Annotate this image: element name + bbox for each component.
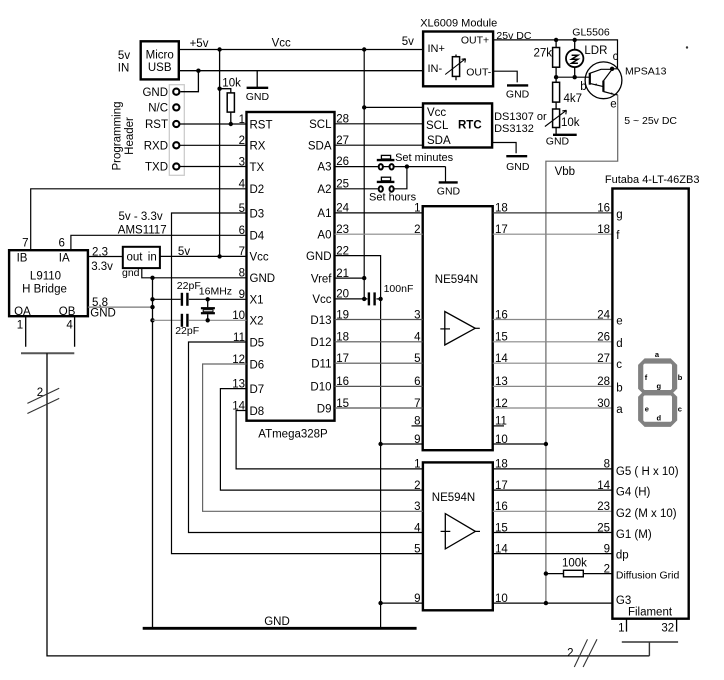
svg-text:4k7: 4k7 <box>564 93 583 105</box>
svg-text:G3: G3 <box>616 595 631 607</box>
svg-text:Diffusion Grid: Diffusion Grid <box>616 569 680 581</box>
svg-text:OA: OA <box>14 306 31 318</box>
svg-text:OUT-: OUT- <box>466 67 492 79</box>
wire RST row <box>180 122 247 126</box>
wire RTC Vcc <box>364 106 423 108</box>
wire Vbb (emitter to drivers) <box>544 95 618 605</box>
svg-text:MPSA13: MPSA13 <box>625 66 667 78</box>
wire 25v rail to transistor collector <box>493 38 617 71</box>
svg-text:24: 24 <box>597 309 610 321</box>
svg-text:100nF: 100nF <box>384 283 414 295</box>
capacitor C1 22pF <box>153 280 247 306</box>
svg-text:Vcc: Vcc <box>427 107 446 119</box>
wire NE594N2 pin 10 to G3 and Vbb <box>493 602 613 604</box>
svg-text:Filament: Filament <box>628 607 673 619</box>
svg-text:Vref: Vref <box>311 273 332 285</box>
svg-text:5v: 5v <box>118 50 130 62</box>
svg-text:Set hours: Set hours <box>369 192 417 204</box>
svg-text:IB: IB <box>17 253 28 265</box>
svg-text:LDR: LDR <box>584 45 607 57</box>
wire A0 to NE594N1 pin 2 <box>335 233 423 235</box>
svg-text:Vbb: Vbb <box>555 166 575 178</box>
svg-text:USB: USB <box>148 62 172 74</box>
svg-text:b: b <box>616 382 622 394</box>
resistor R2 27k <box>534 40 560 77</box>
potentiometer 10k <box>545 109 580 135</box>
svg-text:RST: RST <box>145 119 168 131</box>
svg-text:A0: A0 <box>317 230 331 242</box>
svg-text:X1: X1 <box>250 295 264 307</box>
svg-text:A2: A2 <box>317 184 331 196</box>
svg-text:G5 ( H x 10): G5 ( H x 10) <box>616 466 679 478</box>
svg-text:28: 28 <box>597 376 610 388</box>
svg-text:2: 2 <box>604 563 610 575</box>
photoresistor LDR GL5506 <box>566 27 610 78</box>
bus bar below L9110 <box>21 352 74 354</box>
svg-text:10k: 10k <box>222 78 241 90</box>
svg-text:NE594N: NE594N <box>435 274 478 286</box>
svg-text:Futaba 4-LT-46ZB3: Futaba 4-LT-46ZB3 <box>605 174 700 186</box>
svg-text:c: c <box>616 359 622 371</box>
resistor R4 100k (diffusion grid) <box>546 558 613 577</box>
svg-text:e: e <box>610 98 616 110</box>
transistor Q1 MPSA13 <box>580 51 666 110</box>
svg-text:D7: D7 <box>250 384 265 396</box>
wire AMS1117 in to ATmega Vcc pin 7 <box>160 246 247 258</box>
svg-text:100k: 100k <box>562 558 587 570</box>
svg-text:dp: dp <box>616 550 629 562</box>
wire TXD row <box>180 166 247 168</box>
svg-text:out: out <box>127 251 144 263</box>
wire D4 to L9110 pin 6 <box>71 235 247 250</box>
svg-text:c: c <box>678 405 682 414</box>
svg-text:RST: RST <box>250 119 273 131</box>
IC U2 RTC DS1307 <box>423 103 547 147</box>
svg-text:IN-: IN- <box>428 63 443 75</box>
header pin TXD <box>145 162 179 174</box>
svg-text:b: b <box>580 81 586 93</box>
svg-text:GL5506: GL5506 <box>572 27 610 39</box>
regulator U5 AMS1117 <box>118 211 167 279</box>
svg-text:18: 18 <box>597 224 610 236</box>
svg-text:2: 2 <box>567 648 573 660</box>
svg-text:D9: D9 <box>317 403 332 415</box>
IC U4 NE594N (bottom driver) <box>414 459 508 611</box>
svg-text:+5v: +5v <box>190 38 209 50</box>
resistor R3 4k7 <box>553 77 582 109</box>
connector J1 Micro USB <box>118 41 179 79</box>
wire NE594N1 pin 9 to GND <box>381 443 423 445</box>
wire Vref pin 21 <box>335 277 365 279</box>
svg-text:X2: X2 <box>250 316 264 328</box>
svg-text:RTC: RTC <box>458 120 482 132</box>
svg-text:GND: GND <box>546 136 570 148</box>
display Futaba 4-LT-46ZB3 <box>597 174 699 619</box>
crystal Y1 16MHz <box>199 286 232 323</box>
svg-text:D10: D10 <box>310 382 331 394</box>
capacitor C3 100nF <box>335 283 414 305</box>
svg-text:G1 (M): G1 (M) <box>616 529 652 541</box>
svg-text:27: 27 <box>597 353 610 365</box>
module XL6009 boost converter <box>420 17 497 86</box>
svg-text:22pF: 22pF <box>175 325 199 337</box>
svg-text:25: 25 <box>597 522 610 534</box>
svg-text:XL6009 Module: XL6009 Module <box>420 17 497 29</box>
svg-text:OB: OB <box>59 306 76 318</box>
capacitor C2 22pF <box>153 314 247 337</box>
wire L9110 to AMS1117 (2,3 / 3.3v) <box>88 246 123 273</box>
wire D5 to NE594N2 pin 4 <box>189 342 423 533</box>
svg-text:D13: D13 <box>310 315 331 327</box>
filament pin stubs <box>618 619 677 635</box>
wire NE594N1 pin 10 to Vbb <box>493 443 546 445</box>
svg-text:4: 4 <box>66 319 73 331</box>
svg-text:3: 3 <box>239 156 245 168</box>
wire GND rail <box>179 69 423 73</box>
svg-text:D5: D5 <box>250 337 265 349</box>
svg-text:RXD: RXD <box>144 140 168 152</box>
wire AMS1117 gnd to pin 8 row <box>142 268 247 280</box>
svg-text:G2 (M x 10): G2 (M x 10) <box>616 508 677 520</box>
svg-text:Micro: Micro <box>146 50 174 62</box>
svg-text:GND: GND <box>506 89 530 101</box>
svg-text:e: e <box>616 316 622 328</box>
svg-text:1: 1 <box>17 319 23 331</box>
IC U3 NE594N (top driver) <box>412 203 509 451</box>
seven segment digit graphic <box>638 350 683 427</box>
wire D7 to NE594N2 pin 2 <box>220 389 423 491</box>
wire D6 to NE594N2 pin 3 <box>203 364 423 511</box>
svg-text:Vcc: Vcc <box>250 252 269 264</box>
svg-text:6: 6 <box>58 237 64 249</box>
wire A1 to NE594N1 pin 1 <box>335 212 423 214</box>
svg-text:1: 1 <box>239 114 245 126</box>
header pin RST <box>145 119 179 131</box>
wires NE594N1 outputs to display (g,f,e,d,c,b,a) <box>493 212 613 214</box>
resistor 10k pullup <box>220 78 241 125</box>
IC U1 ATmega328P <box>232 112 349 441</box>
ground symbol buttons <box>437 167 461 198</box>
svg-text:D2: D2 <box>250 184 265 196</box>
svg-text:g: g <box>616 209 622 221</box>
pushbutton SW1 Set minutes <box>377 152 454 169</box>
svg-text:D11: D11 <box>311 359 331 371</box>
svg-text:Header: Header <box>124 117 136 155</box>
header pin N/C <box>148 103 179 115</box>
IC U6 L9110 H Bridge <box>9 237 88 331</box>
wire GND vertical (x=380.6) <box>335 256 383 629</box>
svg-text:Programming: Programming <box>112 101 124 170</box>
svg-text:b: b <box>678 373 683 382</box>
ground symbol RTC <box>492 143 530 173</box>
wire GND vertical (left, x=152.5) <box>150 278 154 629</box>
svg-text:IA: IA <box>59 253 70 265</box>
wire base row (27k/LDR junction to transistor) <box>554 75 590 79</box>
svg-text:10k: 10k <box>561 117 580 129</box>
svg-text:22pF: 22pF <box>177 280 201 292</box>
svg-text:SCL: SCL <box>309 119 332 131</box>
svg-text:GND: GND <box>250 273 276 285</box>
wire RXD row <box>180 144 247 146</box>
svg-text:TX: TX <box>250 162 265 174</box>
svg-text:2: 2 <box>239 135 245 147</box>
wire A3 pin 26 to button <box>335 166 378 168</box>
svg-text:D6: D6 <box>250 359 265 371</box>
wires D13..D9 to NE594N1 pins 3-7 <box>335 319 423 321</box>
wire D2 to L9110 pin 7 <box>31 189 247 250</box>
svg-text:SCL: SCL <box>426 120 449 132</box>
bus marker 2 slashes (left) <box>27 387 59 414</box>
svg-text:SDA: SDA <box>308 141 332 153</box>
wire SDA pin 27 to RTC <box>335 144 424 146</box>
svg-text:ATmega328P: ATmega328P <box>258 429 328 441</box>
pushbutton SW2 Set hours <box>369 177 417 203</box>
svg-text:GND: GND <box>306 251 332 263</box>
svg-text:27k: 27k <box>534 47 553 59</box>
wire NE594N2 pin 9 to GND <box>381 602 423 604</box>
svg-text:L9110: L9110 <box>30 270 61 282</box>
svg-text:16: 16 <box>597 203 610 215</box>
wire +5v rail <box>179 47 423 51</box>
svg-text:3.3v: 3.3v <box>91 261 113 273</box>
svg-text:D8: D8 <box>250 406 265 418</box>
svg-text:D3: D3 <box>250 208 265 220</box>
svg-text:A3: A3 <box>317 162 331 174</box>
svg-text:23: 23 <box>597 501 610 513</box>
wire D8 to NE594N2 pin 1 <box>236 411 423 469</box>
L9110 output pins OA OB stubs <box>26 316 75 347</box>
svg-text:gnd: gnd <box>122 267 140 279</box>
svg-text:26: 26 <box>597 332 610 344</box>
svg-text:8: 8 <box>604 459 610 471</box>
svg-text:N/C: N/C <box>148 103 168 115</box>
svg-text:c: c <box>613 51 619 63</box>
svg-text:g: g <box>657 381 662 390</box>
svg-text:SDA: SDA <box>427 135 451 147</box>
svg-text:GND: GND <box>437 186 461 198</box>
svg-text:7: 7 <box>22 237 28 249</box>
wire bus drop (2 wires) to bottom <box>47 353 649 656</box>
wire USB GND to header pin <box>181 71 199 92</box>
svg-text:2: 2 <box>37 387 43 399</box>
svg-text:32: 32 <box>661 623 674 635</box>
svg-text:IN+: IN+ <box>428 43 445 55</box>
wire D3 to NE594N2 pin 5 <box>172 213 423 554</box>
svg-text:OUT+: OUT+ <box>461 34 489 46</box>
svg-text:5 ~ 25v DC: 5 ~ 25v DC <box>624 115 677 127</box>
svg-text:5v - 3.3v: 5v - 3.3v <box>119 211 163 223</box>
svg-text:9: 9 <box>604 543 610 555</box>
svg-text:H Bridge: H Bridge <box>22 284 67 296</box>
svg-text:30: 30 <box>597 398 610 410</box>
programming header outline <box>169 85 184 176</box>
svg-text:1: 1 <box>618 623 624 635</box>
svg-text:GND: GND <box>246 91 270 103</box>
wires NE594N2 outputs to display grids <box>493 468 613 470</box>
header pin GND <box>142 87 179 99</box>
svg-text:14: 14 <box>597 480 610 492</box>
wire button minutes to GND <box>383 164 445 168</box>
ground symbol pot <box>546 135 577 148</box>
header pin RXD <box>144 140 180 152</box>
svg-text:16MHz: 16MHz <box>199 286 232 298</box>
svg-text:D4: D4 <box>250 231 265 243</box>
svg-text:GND: GND <box>506 161 530 173</box>
svg-text:Set minutes: Set minutes <box>395 152 454 164</box>
svg-text:DS3132: DS3132 <box>494 123 534 135</box>
svg-text:DS1307 or: DS1307 or <box>494 111 547 123</box>
svg-text:a: a <box>616 404 623 416</box>
svg-text:D12: D12 <box>310 337 331 349</box>
svg-text:TXD: TXD <box>145 162 168 174</box>
svg-text:NE594N: NE594N <box>432 492 475 504</box>
stray dot artifact <box>686 46 688 48</box>
wire A2 pin 25 to button <box>335 188 378 190</box>
wire 5v net vertical (x=364.2) <box>362 50 366 302</box>
ground symbol top (near 10k) <box>246 71 270 104</box>
ground symbol XL6009 <box>493 71 530 100</box>
filament supply bar <box>622 642 678 656</box>
bus marker 2 slashes (bottom) <box>567 639 597 667</box>
wire SCL pin 28 to RTC <box>335 123 424 125</box>
svg-text:GND: GND <box>142 87 168 99</box>
svg-text:Vcc: Vcc <box>312 294 331 306</box>
svg-text:5v: 5v <box>178 246 190 258</box>
svg-text:d: d <box>616 338 622 350</box>
svg-text:GND: GND <box>264 616 290 628</box>
svg-text:e: e <box>645 405 649 414</box>
GND bus bar <box>143 616 417 629</box>
wire 5v vertical drop <box>217 50 221 259</box>
svg-text:IN: IN <box>118 62 130 74</box>
svg-text:RX: RX <box>250 141 266 153</box>
svg-text:G4 (H): G4 (H) <box>616 487 651 499</box>
variable inductor symbol inside XL6009 <box>445 55 465 81</box>
svg-text:2,3: 2,3 <box>92 246 108 258</box>
wire L9110 5,8 GND <box>88 297 155 320</box>
svg-text:5v: 5v <box>402 36 414 48</box>
svg-text:GND: GND <box>90 308 116 320</box>
svg-text:in: in <box>148 251 157 263</box>
svg-text:d: d <box>657 413 662 422</box>
wire button hours right terminal <box>394 167 407 189</box>
svg-text:Vcc: Vcc <box>272 37 291 49</box>
svg-text:A1: A1 <box>317 208 331 220</box>
